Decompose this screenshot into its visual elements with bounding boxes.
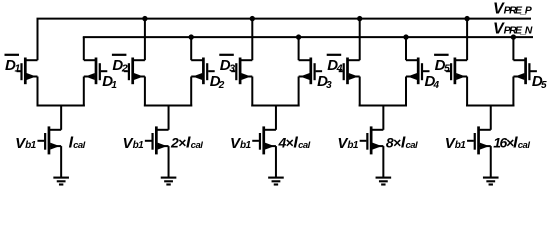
wire: tail bus of cell 1 xyxy=(37,105,85,107)
ground symbol of cell 2 xyxy=(161,178,177,185)
wire: M5t source down to ground xyxy=(490,146,492,178)
wire: tail node down to M4t drain xyxy=(382,106,384,130)
ground symbol of cell 1 xyxy=(53,178,69,185)
wire: M5b drain to V_PRE_N xyxy=(512,37,514,60)
wire: M3a source down to tail bus xyxy=(251,77,253,107)
transistor M4b (right, gate D4) xyxy=(406,58,430,85)
wire: M3b source down to tail bus xyxy=(298,77,300,107)
wire: M2a source down to tail bus xyxy=(144,77,146,107)
ground symbol of cell 4 xyxy=(376,178,392,185)
wire: M1t source down to ground xyxy=(60,146,62,178)
wire: M1a source down to tail bus xyxy=(37,77,39,107)
wire: M5a source down to tail bus xyxy=(466,77,468,107)
wire: M2a drain to V_PRE_P xyxy=(144,19,146,61)
transistor M2b (right, gate D2) xyxy=(191,58,215,85)
wire: tail bus of cell 5 xyxy=(466,105,514,107)
ground symbol of cell 5 xyxy=(483,178,499,185)
wire: tail node down to M5t drain xyxy=(490,106,492,130)
junction dot: M5a drain on V_PRE_P xyxy=(464,16,469,21)
junction dot: M5b drain on V_PRE_N xyxy=(511,34,516,39)
wire: M3b drain to V_PRE_N xyxy=(298,37,300,60)
label D&#772;5 xyxy=(434,54,450,75)
wire: M2b drain to V_PRE_N xyxy=(190,37,192,60)
wire: M4b drain to V_PRE_N xyxy=(405,37,407,60)
wire: tail bus of cell 2 xyxy=(144,105,192,107)
wire: M3a drain to V_PRE_P xyxy=(251,19,253,61)
junction dot: M2a drain on V_PRE_P xyxy=(142,16,147,21)
transistor M4a (left, gate D&#772;4) xyxy=(339,58,360,85)
wire: M2b source down to tail bus xyxy=(190,77,192,107)
junction dot: M3a drain on V_PRE_P xyxy=(250,16,255,21)
label D&#772;2 xyxy=(112,54,128,75)
label D&#772;1 xyxy=(5,54,21,75)
wire: M4t source down to ground xyxy=(382,146,384,178)
wire: M4a drain to V_PRE_P xyxy=(359,19,361,61)
transistor M3b (right, gate D3) xyxy=(299,58,323,85)
label D&#772;3 xyxy=(219,54,235,75)
transistor M3a (left, gate D&#772;3) xyxy=(231,58,252,85)
wire: tail node down to M1t drain xyxy=(60,106,62,130)
wire: V_PRE_P rail xyxy=(37,18,532,20)
wire: M2t source down to ground xyxy=(168,146,170,178)
wire: tail node down to M2t drain xyxy=(168,106,170,130)
wire: tail bus of cell 3 xyxy=(251,105,299,107)
wire: tail bus of cell 4 xyxy=(359,105,407,107)
transistor M1t (tail current source, gate Vb1) xyxy=(37,126,61,154)
wire: tail node down to M3t drain xyxy=(275,106,277,130)
junction dot: M2b drain on V_PRE_N xyxy=(189,34,194,39)
wire: V_PRE_N rail xyxy=(83,36,533,38)
transistor M5b (right, gate D5) xyxy=(513,58,537,85)
transistor M2a (left, gate D&#772;2) xyxy=(124,58,145,85)
wire: M4a source down to tail bus xyxy=(359,77,361,107)
transistor M1b (right, gate D1) xyxy=(84,58,108,85)
transistor M2t (tail current source, gate Vb1) xyxy=(145,126,169,154)
transistor M4t (tail current source, gate Vb1) xyxy=(360,126,384,154)
transistor M1a (left, gate D&#772;1) xyxy=(17,58,38,85)
junction dot: M3b drain on V_PRE_N xyxy=(296,34,301,39)
junction dot: M4b drain on V_PRE_N xyxy=(403,34,408,39)
label D&#772;4 xyxy=(327,54,343,75)
junction dot: M4a drain on V_PRE_P xyxy=(357,16,362,21)
wire: M1b source down to tail bus xyxy=(83,77,85,107)
wire: M1b drain to V_PRE_N xyxy=(83,37,85,60)
wire: M5a drain to V_PRE_P xyxy=(466,19,468,61)
transistor M3t (tail current source, gate Vb1) xyxy=(252,126,276,154)
transistor M5t (tail current source, gate Vb1) xyxy=(467,126,491,154)
wire: M1a drain to V_PRE_P xyxy=(37,19,39,61)
wire: M4b source down to tail bus xyxy=(405,77,407,107)
transistor M5a (left, gate D&#772;5) xyxy=(446,58,467,85)
ground symbol of cell 3 xyxy=(268,178,284,185)
wire: M3t source down to ground xyxy=(275,146,277,178)
wire: M5b source down to tail bus xyxy=(512,77,514,107)
